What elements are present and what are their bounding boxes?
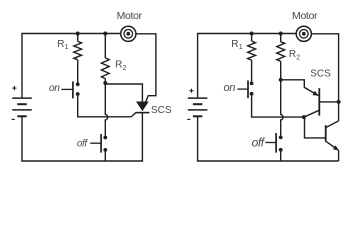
wire: Q1 base to right vertical [319, 101, 338, 103]
resistor R2 [101, 58, 109, 79]
wire: Q2 emitter to bottom rail [338, 150, 340, 161]
junction: Q1 collector / Q2 base node [302, 115, 306, 119]
wire: right circuit left rail top [197, 34, 199, 98]
wire: bottom rail [21, 160, 143, 162]
wire: R3 bottom lead to on switch [251, 60, 253, 83]
SCS Q1: anode-cathode triangle [137, 102, 148, 110]
wire: top rail [21, 33, 120, 35]
wire: left rail bottom (battery - to bottom rail) [21, 116, 23, 161]
junction: R2 top tap [103, 32, 107, 36]
pushbutton SW1 (on): lower contact [76, 92, 80, 96]
transistor Q1 (PNP): emitter lead with arrow [306, 88, 319, 95]
svg-text:Motor: Motor [117, 10, 143, 22]
resistor R3 (R1 of right circuit) [248, 41, 256, 60]
pushbutton SW3 (on): actuator bar [247, 80, 249, 98]
label: battery B2 minus [187, 118, 190, 120]
junction: Q1 base node [337, 100, 341, 104]
pushbutton SW3 (on): upper contact [250, 82, 254, 86]
wire: SCS cathode to bottom rail [141, 113, 143, 161]
svg-text:SCS: SCS [151, 105, 172, 116]
wire: R1 top lead [77, 34, 79, 42]
wire: R4 node to Q1 emitter [281, 80, 307, 89]
pushbutton SW1 (on): actuator bar [72, 81, 74, 98]
resistor R4 (R2 of right circuit) [277, 42, 285, 62]
SCS Q1: cathode bar [135, 112, 149, 114]
wire: right circuit left rail bottom [197, 116, 199, 161]
transistor Q1 (PNP): base bar [318, 88, 320, 116]
battery B1 [12, 98, 32, 116]
pushbutton SW4 (off): stem [265, 142, 276, 144]
svg-text:2: 2 [296, 54, 300, 61]
svg-text:2: 2 [123, 65, 127, 72]
label: battery B1 minus [12, 118, 15, 120]
junction: R4 bottom node (Q1 emitter tap) [279, 78, 283, 82]
wire: R4 top lead [280, 34, 282, 42]
svg-text:1: 1 [65, 44, 69, 51]
svg-text:on: on [49, 83, 60, 94]
svg-text:off: off [252, 136, 266, 150]
wire: right circuit bottom rail [197, 160, 339, 162]
junction: R1 top tap [76, 32, 80, 36]
svg-text:off: off [77, 138, 88, 149]
svg-text:Motor: Motor [292, 10, 318, 22]
motor M1 [121, 26, 136, 41]
svg-text:1: 1 [239, 44, 243, 51]
svg-text:R: R [231, 39, 238, 50]
pushbutton SW1 (on): upper contact [76, 82, 80, 86]
transistor Q1 (PNP): collector lead [304, 110, 319, 117]
transistor Q2 (NPN): emitter lead with arrow [326, 141, 339, 150]
svg-text:R: R [57, 39, 64, 50]
wire: R2 bottom lead [104, 79, 106, 83]
pushbutton SW3 (on): stem [237, 88, 248, 90]
motor M2 [296, 26, 311, 41]
wire: off switch to bottom rail [280, 150, 282, 161]
junction: R3 top tap [250, 32, 254, 36]
wire: motor M1 right lead and anode-gate drop [136, 34, 156, 104]
transistor Q2 (NPN): base bar [325, 125, 327, 141]
wire: R3 top lead [251, 34, 253, 42]
pushbutton SW2 (off): stem [90, 142, 101, 144]
wire: R4 bottom lead [280, 61, 282, 80]
wire: on switch to cathode gate [78, 94, 131, 117]
svg-text:R: R [289, 49, 296, 60]
pushbutton SW2 (off): upper contact [103, 136, 107, 140]
wire: R4 node down to off switch (with hop over base wire) [281, 80, 283, 138]
pushbutton SW4 (off): lower contact [279, 148, 283, 152]
svg-text:on: on [223, 82, 235, 94]
pushbutton SW2 (off): actuator bar [100, 134, 102, 153]
label: battery B1 plus [12, 86, 16, 90]
wire: on switch to Q2 base node [252, 94, 304, 117]
wire: R2 node down to off switch (with hop over gate wire) [105, 83, 107, 138]
transistor Q2 (NPN): collector lead [326, 121, 339, 128]
wire: R1 bottom lead to on switch [77, 60, 79, 85]
battery B2 [188, 98, 208, 116]
wire: R2 top lead [104, 34, 106, 58]
pushbutton SW3 (on): lower contact [250, 92, 254, 96]
wire: off switch to bottom rail [104, 150, 106, 161]
wire: node down to Q2 base [304, 117, 326, 138]
junction: R4 top tap [279, 32, 283, 36]
wire: R2 node to anode [105, 83, 142, 102]
pushbutton SW4 (off): actuator bar [275, 133, 277, 153]
wire: left rail top (battery + to top rail) [21, 34, 23, 98]
resistor R1 [74, 41, 82, 59]
pushbutton SW4 (off): upper contact [279, 136, 283, 140]
wire: motor M2 right lead down to Q2 collector [311, 34, 338, 121]
svg-text:SCS: SCS [310, 69, 331, 80]
svg-text:R: R [115, 60, 122, 71]
junction: R2 bottom node [103, 81, 107, 85]
pushbutton SW2 (off): lower contact [103, 148, 107, 152]
pushbutton SW1 (on): stem [61, 88, 73, 90]
wire: right circuit top rail [197, 33, 296, 35]
wire: cathode gate lead [131, 113, 136, 117]
label: battery B2 plus [189, 89, 193, 93]
